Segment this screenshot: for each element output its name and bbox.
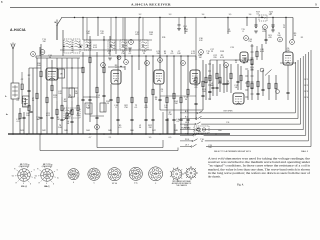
- value label top T4: [229, 14, 232, 16]
- svg-text:OP 1: OP 1: [304, 79, 308, 81]
- value label R9: [294, 33, 297, 37]
- node label D1: [244, 36, 249, 41]
- wire X14: [39, 47, 41, 56]
- value label L19: [114, 105, 118, 109]
- value label T12: [135, 32, 139, 36]
- svg-text:G2: G2: [12, 176, 14, 178]
- value label top T6: [269, 14, 272, 16]
- value label L20: [262, 29, 266, 33]
- svg-text:4,7: 4,7: [89, 137, 92, 139]
- terminal contact PU: [180, 139, 198, 142]
- resistor R15: [103, 67, 105, 73]
- coil L5 (dashed can): [120, 40, 127, 50]
- value label C14: [248, 39, 253, 43]
- value label bus B1: [20, 130, 23, 132]
- wire W16: [89, 36, 91, 122]
- capacitor C9: [95, 117, 98, 118]
- resistor R11: [77, 105, 79, 111]
- value label bus B9: [196, 130, 199, 132]
- wire X2: [212, 64, 214, 96]
- valve V2 (IF amp): [111, 70, 121, 84]
- page corner mark: [1, 0, 3, 4]
- resistor R7: [56, 109, 58, 115]
- value label L5: [227, 29, 231, 33]
- wire W26: [138, 18, 140, 71]
- resistor R16: [117, 97, 119, 103]
- value label L4: [67, 121, 70, 125]
- capacitor C22: [215, 87, 218, 88]
- resistor R13: [89, 57, 91, 63]
- capacitor C25: [254, 25, 257, 26]
- svg-text:G3: G3: [20, 164, 22, 166]
- capacitor C29: [201, 95, 204, 96]
- valve V4 (detector): [190, 70, 200, 84]
- wire W28: [152, 56, 154, 134]
- capacitor CX2: [225, 83, 228, 84]
- svg-text:P1: P1: [96, 127, 98, 129]
- resistor R21: [173, 93, 175, 99]
- resistor R20: [166, 97, 168, 103]
- capacitor C24: [236, 81, 239, 82]
- capacitor C12: [116, 119, 119, 120]
- coil assembly L2 (osc): [23, 96, 30, 107]
- value label T11: [241, 29, 245, 33]
- value label L21: [156, 51, 160, 55]
- coil L8 (dashed can): [64, 108, 80, 118]
- resistor RX1: [205, 77, 207, 83]
- svg-text:G3: G3: [43, 164, 45, 166]
- svg-text:3,5: 3,5: [229, 14, 232, 16]
- valve base diagram S5: [149, 167, 163, 181]
- wire W19: [103, 36, 105, 112]
- capacitor C1: [22, 117, 25, 118]
- valve base diagram B2 header: [42, 164, 53, 168]
- wire W29: [159, 18, 161, 71]
- wire W36: [195, 56, 197, 120]
- wire far left parts: [21, 72, 31, 104]
- wire W39: [216, 60, 218, 96]
- value label bus B5: [108, 130, 111, 132]
- fuse label F1: [301, 37, 304, 39]
- capacitor C6: [70, 121, 73, 122]
- svg-text:R46: R46: [130, 130, 133, 132]
- value label C5: [144, 105, 148, 109]
- value label L11: [164, 105, 168, 109]
- wire cable loop 3: [204, 54, 306, 135]
- valve base diagram B1 header: [19, 164, 30, 168]
- resistor R12: [82, 67, 84, 73]
- valve base caption 4: [73, 182, 74, 184]
- wire left rail mid: [22, 68, 41, 102]
- svg-text:SELECT TO ALTERNATE WEIGHT: SELECT TO ALTERNATE WEIGHT 44TG: [214, 150, 251, 153]
- ground G4: [128, 48, 132, 50]
- svg-text:marked, the value is less than: marked, the value is less than one ohm. …: [208, 168, 311, 171]
- electrolytic C31 box: [85, 103, 92, 114]
- valve base caption V3 V4: [112, 183, 117, 185]
- wire W34: [184, 18, 186, 35]
- capacitor C7: [81, 99, 84, 100]
- value label L12: [16, 119, 20, 123]
- wire W21: [110, 84, 112, 134]
- wire W8: [51, 60, 53, 134]
- wire return loop: [97, 134, 163, 148]
- value label T13: [42, 39, 46, 43]
- svg-text:V4: V4: [200, 52, 202, 54]
- value label C19: [230, 47, 235, 49]
- node chassis junctions: [12, 133, 217, 135]
- value label L3: [210, 83, 214, 87]
- capacitor C20: [194, 103, 197, 104]
- wire mid row: [36, 56, 252, 60]
- description paragraph: [208, 157, 311, 178]
- wire W23: [124, 18, 126, 61]
- wire W17: [97, 18, 99, 37]
- svg-text:D1: D1: [245, 38, 247, 40]
- node label 23: [129, 40, 134, 45]
- value label R3: [115, 65, 118, 69]
- resistor R25: [202, 81, 204, 87]
- value label bus B6: [130, 130, 133, 132]
- svg-text:5: 5: [93, 183, 94, 185]
- svg-text:R45: R45: [108, 130, 111, 132]
- chassis bus: [8, 133, 230, 135]
- value label C6: [287, 48, 291, 52]
- valve V1 (freq changer): [46, 68, 58, 80]
- value label L22: [58, 91, 62, 95]
- node label LH: [124, 60, 129, 65]
- value label S23: [269, 12, 273, 16]
- value label R11: [79, 45, 83, 49]
- value label T1: [283, 25, 286, 29]
- wire X13: [62, 30, 64, 56]
- wire W43: [237, 64, 239, 90]
- value label T2: [135, 105, 139, 109]
- value label bus B4: [86, 130, 89, 132]
- terminal contact A: [180, 110, 203, 114]
- wire V7 screen links: [260, 63, 296, 93]
- svg-text:1 M: 1 M: [199, 40, 203, 42]
- wire W27: [145, 56, 147, 134]
- wire W18: [96, 52, 98, 134]
- svg-text:A 1: A 1: [185, 110, 188, 113]
- svg-text:2M: 2M: [157, 53, 160, 55]
- value label C23: [107, 51, 112, 55]
- value label T5: [68, 95, 73, 99]
- electrolytic C30 box: [58, 69, 65, 78]
- svg-text:R50: R50: [218, 130, 221, 132]
- node mid rail junctions: [117, 55, 188, 56]
- svg-text:3,6: 3,6: [249, 14, 252, 16]
- svg-text:receiver was switched to the m: receiver was switched to the medium wave…: [208, 161, 310, 164]
- wire W31: [166, 56, 168, 134]
- value label R1: [57, 117, 61, 121]
- value label C21: [46, 113, 51, 117]
- value label bus B10: [218, 130, 221, 132]
- row label EXT SPKR: [224, 111, 234, 125]
- capacitor CX4: [256, 93, 259, 94]
- capacitor C51 with ground: [177, 18, 188, 31]
- value label bus B8: [174, 130, 177, 132]
- capacitor CX1: [211, 87, 214, 88]
- resistor R10: [71, 109, 73, 115]
- caption diag number: [301, 150, 309, 153]
- svg-text:3,4: 3,4: [202, 14, 205, 16]
- wire W10: [61, 97, 63, 134]
- resistor RX6: [268, 83, 270, 89]
- value label S17: [93, 45, 98, 49]
- wire W30: [159, 84, 161, 110]
- node label V1: [101, 63, 106, 68]
- value label L18: [260, 49, 265, 53]
- wafer switch diagram W1: [170, 167, 184, 181]
- svg-text:OP 2: OP 2: [304, 85, 308, 87]
- resistor RX4: [247, 81, 249, 87]
- wire top HT bus: [61, 17, 293, 19]
- svg-text:H: H: [14, 168, 15, 170]
- svg-text:B7G (4): B7G (4): [21, 186, 27, 188]
- capacitor C18: [179, 119, 182, 120]
- wire W37: [202, 60, 204, 110]
- resistor R9: [66, 113, 68, 119]
- capacitor C7g: [286, 92, 289, 93]
- svg-text:A test volt/ohm meter was: A test volt/ohm meter was used for takin…: [208, 157, 311, 160]
- value label T10: [86, 105, 91, 109]
- svg-text:3,2: 3,2: [139, 14, 142, 16]
- wire link y116: [90, 115, 104, 117]
- wire W14: [82, 18, 84, 41]
- resistor R1: [19, 113, 21, 119]
- trimmer symbol CT1: [117, 56, 121, 60]
- svg-text:OP 3: OP 3: [304, 91, 308, 93]
- valve V3 (IF amp): [154, 70, 164, 84]
- wire link y68: [57, 67, 83, 68]
- value label S10: [37, 63, 41, 67]
- value label R2: [220, 55, 225, 59]
- node label P1: [95, 125, 100, 130]
- capacitor C26: [271, 25, 274, 26]
- value label C19: [208, 145, 213, 149]
- svg-text:2M: 2M: [287, 50, 290, 52]
- resistor R57: [256, 51, 258, 57]
- value label T3: [277, 33, 281, 37]
- value label S22: [124, 105, 128, 109]
- wire X8: [262, 70, 264, 96]
- ground G3: [243, 58, 247, 60]
- value label T4: [171, 51, 175, 55]
- svg-text:V3 V4: V3 V4: [112, 183, 117, 185]
- wire cable loop 7: [199, 62, 296, 113]
- resistor RX7: [275, 83, 277, 89]
- svg-text:“no signal” conditions. In tho: “no signal” conditions. In those cases w…: [208, 165, 310, 168]
- value label T19: [206, 51, 210, 55]
- capacitor C13: [130, 119, 133, 120]
- wire W35: [187, 56, 189, 134]
- switch S1a contact: [54, 18, 62, 40]
- header rule: [10, 7, 319, 9]
- node label S1: [40, 50, 45, 55]
- wire X10: [275, 75, 277, 100]
- wire W4: [32, 68, 34, 134]
- svg-text:V1: V1: [102, 65, 104, 67]
- capacitor C27: [264, 39, 267, 40]
- capacitor C10: [102, 95, 105, 96]
- wire W50: [292, 18, 294, 41]
- capacitor C3: [39, 117, 42, 118]
- wire X11: [261, 44, 263, 60]
- resistor R14: [96, 87, 98, 93]
- value label R8: [155, 97, 158, 101]
- value label C16: [48, 55, 53, 59]
- resistor R5: [46, 97, 48, 103]
- value label L2: [139, 125, 142, 129]
- capacitor C15: [151, 119, 154, 120]
- value label S5: [119, 125, 123, 129]
- resistor R30: [251, 83, 253, 89]
- svg-text:PU 6: PU 6: [185, 139, 189, 141]
- terminal label TL2: [304, 85, 308, 87]
- valve base caption C: [155, 183, 157, 185]
- capacitor C28: [158, 99, 161, 100]
- wire W1: [19, 108, 21, 134]
- value label R23: [202, 89, 207, 93]
- ground G1: [254, 31, 258, 33]
- svg-text:2,1: 2,1: [109, 137, 112, 139]
- resistor R19: [152, 89, 154, 95]
- value label R15: [250, 67, 255, 71]
- wire W6: [40, 44, 42, 134]
- value label under-bus: [89, 137, 172, 139]
- wire W38: [209, 60, 211, 100]
- value label R10: [184, 29, 189, 33]
- value label C1: [17, 98, 21, 102]
- value label bus B2: [42, 130, 45, 132]
- resistor R6: [51, 85, 53, 91]
- value label S8: [235, 60, 238, 64]
- coil box L11: [69, 88, 75, 97]
- resistor R18: [145, 97, 147, 103]
- capacitor C21: [208, 91, 211, 92]
- wire W3: [28, 68, 30, 134]
- resistor R8: [61, 105, 63, 111]
- wire W41: [227, 18, 229, 35]
- node C58 junction: [255, 27, 273, 28]
- switch bank S2 contacts: [251, 46, 254, 94]
- schematic model label A.H4CIA: [10, 28, 26, 32]
- value label C15: [142, 51, 147, 55]
- value label L6: [121, 51, 125, 55]
- node label V4: [199, 50, 204, 55]
- node coil cluster junctions: [87, 39, 144, 46]
- wire link y88: [62, 87, 78, 89]
- wire osc feed: [87, 18, 143, 55]
- value label C20: [194, 85, 199, 89]
- resistor RX2: [219, 77, 221, 83]
- wire W33: [180, 56, 182, 134]
- coil L2 (dashed can): [73, 39, 80, 53]
- wire X7: [257, 70, 259, 100]
- wire W2: [23, 112, 25, 134]
- value label C7: [177, 51, 181, 55]
- svg-text:G 5: G 5: [185, 133, 188, 135]
- value label C12: [234, 85, 239, 89]
- value label S7: [76, 113, 80, 117]
- value label bus B7: [152, 130, 155, 132]
- value label S15: [26, 113, 30, 117]
- resistor R29: [251, 59, 253, 65]
- wire W15: [82, 52, 84, 134]
- svg-text:R44: R44: [86, 130, 89, 132]
- potentiometer VR2: [181, 126, 205, 131]
- valve base diagram B2: [35, 164, 60, 188]
- svg-text:H: H: [37, 168, 38, 170]
- node label F2: [290, 40, 295, 45]
- capacitor C23: [222, 83, 225, 84]
- wire X1: [205, 64, 207, 100]
- svg-text:0,5: 0,5: [169, 137, 172, 139]
- wire lower row: [160, 96, 203, 110]
- capacitor C8: [88, 99, 91, 100]
- resistor R22: [180, 97, 182, 103]
- svg-text:Fig. 4.: Fig. 4.: [237, 183, 244, 186]
- svg-text:LS 3: LS 3: [185, 122, 189, 124]
- node bus junction 74: [63, 17, 81, 47]
- resistor R17: [131, 97, 133, 103]
- node label V7: [278, 37, 283, 42]
- wire W12: [71, 101, 73, 134]
- node label V3: [181, 61, 186, 66]
- value label C22: [213, 55, 218, 59]
- value label T17: [184, 97, 188, 101]
- valve V5 (AF amp): [233, 93, 244, 105]
- svg-text:E 2: E 2: [185, 117, 188, 119]
- svg-text:A.H4CIA: A.H4CIA: [10, 28, 26, 32]
- switch bank S2b contacts: [245, 62, 248, 97]
- svg-text:1M: 1M: [57, 119, 60, 121]
- value label L14: [86, 31, 90, 35]
- capacitor C14: [144, 119, 147, 120]
- valve V7 (output): [283, 52, 293, 65]
- value label S14: [174, 101, 178, 105]
- svg-text:in the long wave position; the: in the long wave position; the wafers ar…: [208, 172, 310, 175]
- coil L7 (dashed can): [259, 15, 267, 21]
- wire V7 column: [287, 65, 289, 100]
- terminal label TL3: [304, 91, 308, 93]
- value label T20: [100, 31, 104, 35]
- wire W32: [173, 56, 175, 134]
- svg-text:OP 4: OP 4: [304, 97, 308, 99]
- capacitor C16: [165, 119, 168, 120]
- value label S1: [164, 51, 167, 55]
- wire cable loop 6: [200, 60, 298, 119]
- value label L7: [32, 98, 35, 102]
- svg-text:C31: C31: [87, 108, 90, 110]
- valve base caption D ta: [134, 182, 138, 185]
- svg-text:23: 23: [130, 42, 132, 44]
- value label top T5: [249, 14, 252, 16]
- svg-text:R41: R41: [20, 130, 23, 132]
- resistor RX5: [257, 81, 259, 87]
- node V2 grid dot: [108, 66, 125, 67]
- svg-text:2M: 2M: [175, 103, 178, 105]
- wire W9: [56, 101, 58, 134]
- svg-text:S1: S1: [41, 52, 43, 54]
- terminal contact LS: [180, 122, 201, 125]
- value label T18: [36, 117, 40, 121]
- wire return loop 2: [40, 134, 178, 151]
- node label C5: [263, 25, 268, 30]
- coil assembly L1 (aerial): [11, 83, 19, 99]
- value label S13: [184, 125, 188, 129]
